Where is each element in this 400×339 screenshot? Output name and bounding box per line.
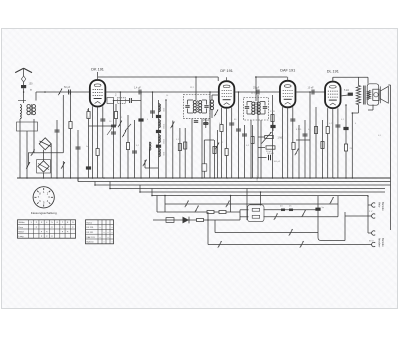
svg-text:500 kΩ: 500 kΩ [267, 153, 274, 155]
svg-text:100 µF: 100 µF [274, 161, 281, 163]
svg-text:50: 50 [109, 121, 112, 123]
svg-text:2000: 2000 [162, 124, 164, 130]
svg-text:300: 300 [162, 108, 164, 112]
svg-text:3: 3 [41, 222, 43, 224]
svg-text:×: × [111, 231, 113, 234]
svg-text:0,1: 0,1 [341, 119, 345, 121]
svg-text:2: 2 [36, 222, 38, 224]
svg-text:×: × [51, 226, 53, 229]
svg-text:Röhre: Röhre [87, 221, 94, 224]
svg-text:×: × [72, 226, 74, 229]
svg-text:14: 14 [166, 95, 169, 97]
svg-text:2: 2 [47, 191, 49, 195]
svg-text:Anoden-: Anoden- [378, 238, 381, 248]
svg-text:DL 191: DL 191 [327, 69, 339, 73]
svg-text:9: 9 [72, 222, 74, 224]
svg-text:25: 25 [289, 206, 292, 208]
svg-text:3: 3 [48, 195, 50, 199]
svg-text:×: × [41, 231, 43, 234]
svg-text:ZF 2: ZF 2 [251, 93, 256, 95]
svg-text:1: 1 [43, 190, 45, 194]
svg-text:×: × [111, 226, 113, 229]
svg-text:DK 191: DK 191 [91, 68, 104, 72]
svg-text:8: 8 [67, 222, 69, 224]
svg-text:50 pF: 50 pF [266, 151, 272, 153]
svg-text:40: 40 [280, 206, 283, 208]
svg-text:×: × [46, 235, 48, 238]
svg-text:×: × [107, 231, 109, 234]
svg-text:90 V: 90 V [369, 241, 374, 243]
svg-text:5µ: 5µ [322, 207, 325, 209]
svg-text:0,5: 0,5 [378, 135, 382, 137]
svg-text:×: × [41, 235, 43, 238]
svg-text:a: a [30, 88, 32, 92]
svg-text:6: 6 [57, 222, 59, 224]
svg-text:DAF 191: DAF 191 [280, 69, 295, 73]
svg-text:DF 191: DF 191 [220, 69, 232, 73]
svg-text:2: 2 [115, 93, 117, 97]
svg-text:2 MΩ: 2 MΩ [270, 111, 275, 113]
svg-text:4: 4 [355, 123, 357, 125]
svg-text:900: 900 [162, 152, 164, 156]
svg-text:10 nF: 10 nF [308, 87, 315, 90]
svg-text:0,2: 0,2 [329, 123, 333, 125]
svg-text:×: × [67, 231, 69, 234]
svg-text:1: 1 [31, 222, 33, 224]
svg-text:Batterie: Batterie [87, 241, 95, 244]
svg-text:0,1: 0,1 [176, 139, 180, 141]
svg-text:Wellen: Wellen [19, 222, 25, 224]
svg-text:3: 3 [121, 117, 123, 119]
svg-text:5: 5 [51, 222, 53, 224]
svg-text:5: 5 [43, 201, 45, 205]
svg-text:150: 150 [29, 83, 34, 86]
svg-text:×: × [51, 235, 53, 238]
svg-text:6: 6 [39, 199, 41, 203]
svg-text:DAF 191: DAF 191 [87, 236, 96, 239]
svg-text:×: × [111, 241, 113, 244]
svg-text:0,2: 0,2 [136, 145, 140, 147]
svg-text:Mittel: Mittel [19, 230, 25, 233]
svg-text:0,1: 0,1 [308, 129, 312, 131]
svg-text:1: 1 [222, 142, 224, 144]
svg-text:Lang: Lang [19, 236, 25, 238]
svg-text:Heiz-: Heiz- [378, 202, 381, 208]
svg-text:4: 4 [47, 199, 49, 203]
svg-text:Kurz: Kurz [19, 226, 24, 229]
svg-text:5 kΩ: 5 kΩ [344, 89, 349, 92]
svg-text:×: × [62, 231, 64, 234]
svg-text:×: × [36, 226, 38, 229]
svg-text:×: × [103, 231, 105, 234]
svg-text:4 MΩ: 4 MΩ [296, 129, 302, 131]
svg-text:8: 8 [39, 191, 41, 195]
svg-text:×: × [107, 236, 109, 239]
svg-text:8: 8 [147, 119, 149, 121]
svg-text:25 µF: 25 µF [203, 119, 210, 122]
svg-text:Batterie: Batterie [381, 202, 384, 211]
svg-text:50 µF: 50 µF [64, 86, 71, 89]
svg-text:7: 7 [62, 222, 64, 224]
svg-text:ZF 1: ZF 1 [190, 87, 195, 89]
svg-text:×: × [99, 236, 101, 239]
svg-text:4: 4 [46, 222, 48, 224]
svg-text:3000: 3000 [162, 139, 164, 145]
svg-text:Fassungsschaltung: Fassungsschaltung [31, 211, 57, 215]
svg-text:DF 191: DF 191 [87, 232, 95, 234]
svg-text:Batterie: Batterie [381, 238, 384, 247]
svg-text:7: 7 [38, 195, 40, 199]
svg-text:DK 191: DK 191 [87, 227, 95, 229]
svg-text:×: × [103, 241, 105, 244]
svg-text:×: × [62, 226, 64, 229]
svg-text:80: 80 [234, 119, 237, 121]
svg-text:×: × [99, 226, 101, 229]
svg-text:×: × [46, 231, 48, 234]
svg-text:1,4 µF: 1,4 µF [134, 87, 141, 90]
svg-text:2 V: 2 V [369, 211, 373, 213]
svg-text:25 µF: 25 µF [253, 87, 260, 90]
svg-text:0,1: 0,1 [246, 145, 250, 147]
